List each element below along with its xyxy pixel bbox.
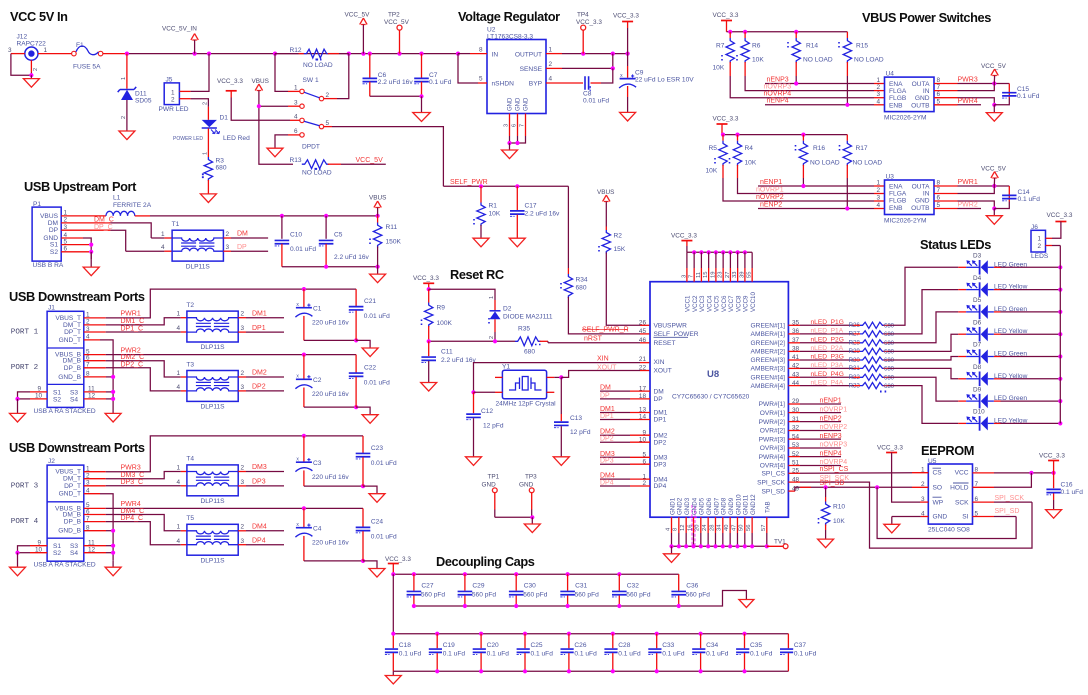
svg-text:26: 26	[639, 320, 647, 327]
ground A	[362, 348, 378, 357]
svg-text:nENP2: nENP2	[820, 415, 842, 422]
svg-text:560 pFd: 560 pFd	[421, 591, 446, 598]
svg-text:GND6: GND6	[706, 497, 713, 515]
svg-text:IN: IN	[492, 52, 499, 59]
svg-text:C16: C16	[1061, 482, 1073, 489]
svg-text:0.1 uFd: 0.1 uFd	[1061, 489, 1084, 496]
wire VCC to WP pin3	[892, 453, 920, 503]
wire R3 to ground	[207, 180, 209, 194]
svg-text:DP2: DP2	[654, 439, 667, 446]
svg-text:MIC2026-2YM: MIC2026-2YM	[884, 217, 927, 224]
svg-text:GND: GND	[915, 95, 930, 102]
svg-text:R15: R15	[856, 42, 868, 49]
svg-text:DP: DP	[654, 396, 664, 403]
svg-text:R11: R11	[386, 224, 398, 231]
junction U2 IN	[456, 52, 460, 56]
wire F1 to main 5V bus	[103, 53, 127, 55]
svg-text:DP_T: DP_T	[64, 329, 81, 336]
wire pullup bus	[722, 134, 847, 136]
svg-text:2: 2	[549, 61, 553, 68]
svg-text:J5: J5	[166, 77, 173, 84]
svg-text:DM1: DM1	[654, 410, 668, 417]
svg-text:VCC8: VCC8	[735, 295, 742, 312]
svg-text:S3: S3	[70, 389, 78, 396]
svg-text:DM: DM	[600, 385, 611, 392]
svg-text:DIODE MA2J111: DIODE MA2J111	[503, 314, 553, 321]
svg-text:4: 4	[294, 114, 298, 121]
svg-text:DP1: DP1	[252, 325, 266, 332]
svg-text:2.2 uFd 16v: 2.2 uFd 16v	[441, 357, 477, 364]
wire rail to ground decoupling	[392, 671, 394, 675]
svg-text:1: 1	[44, 47, 48, 54]
svg-text:nSPI_CS: nSPI_CS	[820, 466, 849, 473]
pin VCC1	[686, 252, 688, 268]
ground B	[369, 569, 385, 578]
ground under R1	[473, 238, 489, 247]
svg-text:R1: R1	[489, 203, 498, 210]
wire D6 to LED rail	[1001, 333, 1061, 335]
svg-text:Decoupling Caps: Decoupling Caps	[436, 554, 535, 569]
svg-text:VBUS: VBUS	[252, 78, 269, 85]
svg-text:C34: C34	[706, 642, 718, 649]
svg-text:USB Downstream Ports: USB Downstream Ports	[9, 289, 145, 304]
crystal stub upper-left	[495, 376, 502, 378]
svg-text:680: 680	[884, 324, 895, 330]
resistor R17 NO LOAD	[846, 135, 848, 141]
svg-text:USB Downstream Ports: USB Downstream Ports	[9, 440, 145, 455]
svg-text:SD05: SD05	[135, 97, 152, 104]
wire U2 IN pin8	[470, 53, 487, 55]
LED D9 LED Green	[958, 400, 966, 402]
wire R12 left column to SW1 pin1	[275, 54, 288, 92]
wire J12 pin3 to ground loop	[11, 53, 25, 55]
wire SW1 pin2 riser	[324, 98, 337, 100]
wire nENP1 net	[802, 165, 804, 178]
svg-text:VCC_5V: VCC_5V	[356, 157, 384, 164]
svg-text:1: 1	[877, 180, 881, 187]
svg-text:DM1: DM1	[600, 406, 615, 413]
ground under U8	[664, 554, 680, 563]
svg-text:J12: J12	[17, 33, 28, 40]
svg-text:nENP3: nENP3	[767, 76, 789, 83]
capacitor C16 0.1uFd	[1053, 473, 1055, 488]
wire rail B to ground	[356, 407, 370, 415]
junction SENSE riser	[611, 52, 615, 56]
svg-text:GND_B: GND_B	[58, 528, 81, 535]
TVS diode D11 SD05	[126, 54, 128, 89]
wire U8 LED pin to R29	[788, 350, 800, 352]
junction SW1 pin3 stub	[257, 104, 261, 108]
svg-text:GREEN#[3]: GREEN#[3]	[751, 357, 786, 364]
svg-text:22: 22	[639, 365, 647, 372]
svg-text:C30: C30	[524, 582, 536, 589]
svg-text:VCC_3.3: VCC_3.3	[713, 12, 739, 19]
svg-text:680: 680	[524, 349, 535, 356]
svg-text:OUTB: OUTB	[911, 102, 930, 109]
svg-text:C17: C17	[525, 203, 537, 210]
wire rail A to ground	[356, 340, 370, 348]
junction S1	[89, 243, 93, 247]
junction C7 rail	[419, 94, 423, 98]
svg-text:3: 3	[241, 538, 245, 545]
svg-text:0.1 uFd: 0.1 uFd	[531, 650, 554, 657]
pin VCC4	[707, 250, 711, 254]
svg-text:VCC 5V In: VCC 5V In	[10, 9, 68, 24]
wire R34 to U8 SELF_POWER pin45	[568, 297, 640, 334]
svg-text:PWR3: PWR3	[958, 77, 978, 84]
svg-text:560 pFd: 560 pFd	[523, 591, 548, 598]
junction C7	[419, 52, 423, 56]
svg-text:SPI_CS: SPI_CS	[762, 471, 786, 478]
svg-text:C21: C21	[364, 298, 376, 305]
svg-text:VCC5: VCC5	[714, 295, 721, 312]
svg-text:nLED_P1A: nLED_P1A	[811, 328, 844, 335]
hub controller U8 CY7C65630	[650, 282, 788, 518]
wire to P1 ground	[90, 252, 92, 267]
svg-text:J2: J2	[48, 458, 55, 465]
resistor R4 10K	[737, 135, 739, 141]
wire bulk A bottom rail	[304, 339, 356, 341]
svg-text:nRST: nRST	[584, 336, 603, 343]
svg-text:C36: C36	[686, 582, 698, 589]
svg-text:10K: 10K	[706, 167, 718, 174]
svg-text:NO LOAD: NO LOAD	[853, 159, 883, 166]
wire VBUS to R2	[605, 202, 607, 227]
svg-text:DM: DM	[654, 388, 664, 395]
wire nENP3 net	[795, 62, 797, 76]
svg-text:C27: C27	[421, 582, 433, 589]
svg-text:T2: T2	[186, 302, 194, 309]
junction XOUT crystal	[559, 375, 563, 379]
svg-text:1: 1	[161, 231, 165, 238]
svg-text:SPI_SCK: SPI_SCK	[757, 479, 785, 486]
svg-text:SI: SI	[962, 514, 968, 521]
ground under U2	[502, 150, 518, 159]
svg-text:0.01 uFd: 0.01 uFd	[583, 98, 609, 105]
svg-text:4: 4	[549, 76, 553, 83]
svg-text:PWR3: PWR3	[121, 465, 141, 472]
svg-text:45: 45	[639, 328, 647, 335]
svg-text:XOUT: XOUT	[654, 368, 672, 375]
svg-text:AMBER#[1]: AMBER#[1]	[751, 331, 786, 338]
junction pullup	[743, 30, 747, 34]
wire VCC_3.3 to SW1 pin4	[231, 98, 290, 121]
svg-text:SPI_SD: SPI_SD	[762, 488, 786, 495]
svg-text:T5: T5	[186, 515, 194, 522]
junction C5	[324, 214, 328, 218]
svg-text:0.1 uFd: 0.1 uFd	[429, 79, 452, 86]
svg-text:R5: R5	[709, 145, 718, 152]
svg-text:C1: C1	[313, 306, 322, 313]
svg-text:DM_B: DM_B	[63, 358, 82, 365]
svg-text:DP_B: DP_B	[64, 519, 82, 526]
capacitor ceramic B 0.01uFd	[355, 355, 357, 373]
ground under P1	[83, 267, 99, 276]
svg-text:SPI_SCK: SPI_SCK	[995, 495, 1025, 502]
svg-text:USB B RA: USB B RA	[33, 262, 64, 269]
svg-text:C8: C8	[583, 90, 592, 97]
capacitor bulk A 220uFd	[303, 289, 305, 308]
svg-text:0.01 uFd: 0.01 uFd	[364, 379, 390, 386]
svg-text:C3: C3	[313, 460, 322, 467]
svg-text:12: 12	[680, 525, 686, 531]
svg-text:C18: C18	[399, 642, 411, 649]
wire T3 pin3 DP2	[238, 390, 246, 392]
svg-text:GND4: GND4	[691, 497, 698, 515]
svg-text:0.1 uFd: 0.1 uFd	[706, 650, 729, 657]
junction C_a top	[302, 287, 306, 291]
capacitor C20 0.1uFd	[479, 632, 483, 636]
svg-text:VCC2: VCC2	[692, 295, 699, 312]
svg-text:DM2: DM2	[600, 429, 615, 436]
ground right	[105, 567, 121, 576]
wire U4 GND	[934, 97, 958, 99]
svg-text:PWR1: PWR1	[121, 311, 141, 318]
wire U2 BYP with C8	[546, 82, 583, 84]
wire U8 LED pin to R31	[788, 367, 800, 369]
svg-text:PWR4: PWR4	[958, 98, 978, 105]
capacitor C25 0.1uFd	[523, 632, 527, 636]
wire HOLD pin7 riser	[973, 486, 995, 488]
svg-text:IN: IN	[923, 191, 930, 198]
svg-text:220 uFd 16v: 220 uFd 16v	[312, 391, 349, 398]
svg-text:C2: C2	[313, 377, 322, 384]
svg-text:C31: C31	[575, 582, 587, 589]
svg-text:VCC_3.3: VCC_3.3	[413, 275, 439, 282]
svg-text:DLP11S: DLP11S	[201, 404, 226, 411]
svg-text:R2: R2	[614, 233, 623, 240]
capacitor C36 560pFd	[678, 574, 680, 591]
svg-text:GND: GND	[933, 514, 948, 521]
svg-text:U8: U8	[707, 369, 719, 380]
capacitor C14 0.1uFd	[994, 202, 1009, 209]
wire U5 GND pin4 to ground	[921, 516, 929, 518]
wire T1 pin3 DP	[223, 250, 231, 252]
svg-text:SPI_SD: SPI_SD	[820, 480, 845, 487]
capacitor C19 0.1uFd	[435, 632, 439, 636]
svg-text:D9: D9	[973, 386, 982, 393]
svg-text:D5: D5	[973, 297, 982, 304]
pin VCC2	[692, 250, 696, 254]
wire rail to ground	[421, 96, 423, 112]
ground left	[10, 567, 26, 576]
svg-text:3: 3	[241, 325, 245, 332]
wire U8 DP3 stub	[630, 463, 650, 465]
svg-text:50: 50	[739, 525, 745, 531]
svg-text:S4: S4	[70, 550, 78, 557]
svg-text:OUTA: OUTA	[912, 184, 930, 191]
junction VCC_5V arrow	[361, 52, 365, 56]
svg-text:nOVRP3: nOVRP3	[820, 442, 848, 449]
svg-text:680: 680	[884, 367, 895, 373]
svg-text:PORT 2: PORT 2	[11, 364, 39, 372]
junction U2 gnd 2	[515, 141, 519, 145]
junction C16	[1052, 471, 1056, 475]
svg-text:VBUSPWR: VBUSPWR	[654, 323, 688, 330]
svg-text:GND: GND	[516, 97, 522, 111]
svg-text:DLP11S: DLP11S	[201, 557, 226, 564]
junction R9 C11	[427, 339, 431, 343]
wire T5 pin2 DM4	[238, 530, 246, 532]
wire DP4_C	[84, 521, 106, 523]
pin VCC5	[714, 250, 718, 254]
svg-text:1: 1	[177, 524, 181, 531]
ground under U3	[986, 216, 1002, 225]
capacitor C12 12pFd	[473, 392, 475, 413]
svg-text:2: 2	[489, 336, 495, 339]
svg-text:220 uFd 16v: 220 uFd 16v	[312, 474, 349, 481]
junction SW1 pin2 riser	[347, 52, 351, 56]
svg-text:C11: C11	[441, 349, 453, 356]
svg-text:nOVRP4: nOVRP4	[764, 91, 792, 98]
svg-text:OVR#[3]: OVR#[3]	[760, 445, 785, 452]
svg-text:FLGA: FLGA	[889, 88, 907, 95]
svg-text:SCK: SCK	[955, 499, 969, 506]
wire R32 to LED D9	[888, 377, 958, 401]
svg-text:220 uFd 16v: 220 uFd 16v	[312, 320, 349, 327]
svg-text:2: 2	[171, 97, 175, 104]
resistor R11 150K	[377, 216, 379, 223]
ground under C17	[509, 238, 525, 247]
svg-text:12 pFd: 12 pFd	[483, 423, 504, 430]
svg-text:T4: T4	[186, 456, 194, 463]
svg-text:VCC_5V: VCC_5V	[981, 166, 1007, 173]
wire PWR3 riser and rail	[84, 471, 106, 473]
wire nSPI_CS from U8 to U5	[788, 472, 800, 474]
wire nOVRP4 net	[729, 62, 731, 76]
svg-text:R10: R10	[833, 504, 845, 511]
connector J5 PWR LED	[164, 83, 179, 105]
ground under C13	[553, 457, 569, 466]
svg-text:C10: C10	[290, 232, 302, 239]
wire pullup bus	[727, 31, 848, 33]
svg-text:DM_B: DM_B	[63, 512, 82, 519]
LED D8 LED Yellow	[958, 378, 966, 380]
wire D3 to LED rail	[1001, 266, 1061, 268]
svg-text:GREEN#[1]: GREEN#[1]	[751, 323, 786, 330]
wire D8 to LED rail	[1001, 378, 1061, 380]
svg-text:24MHz 12pF Crystal: 24MHz 12pF Crystal	[496, 401, 557, 408]
svg-text:0.1 uFd: 0.1 uFd	[574, 650, 597, 657]
svg-text:C15: C15	[1017, 86, 1029, 93]
ground decoupling bottom row	[385, 676, 401, 684]
ground under C12	[466, 457, 482, 466]
svg-text:DP: DP	[600, 392, 610, 399]
svg-text:56: 56	[746, 525, 752, 531]
wire SW1 pin5 SELF_PWR	[324, 126, 332, 128]
bottom pins of U8 GND1-GND12 TAB	[671, 517, 673, 533]
svg-text:1: 1	[171, 89, 175, 96]
svg-text:CS: CS	[933, 470, 943, 477]
svg-text:S1: S1	[53, 543, 61, 550]
capacitor C37 0.1uFd	[787, 634, 789, 649]
svg-text:Y1: Y1	[502, 363, 510, 370]
svg-text:2.2 uFd 16v: 2.2 uFd 16v	[378, 79, 414, 86]
svg-text:DP4: DP4	[654, 483, 667, 490]
svg-text:57: 57	[761, 525, 767, 531]
svg-text:ENA: ENA	[889, 184, 903, 191]
svg-text:PWR#[4]: PWR#[4]	[759, 454, 786, 461]
wire P1 VBUS to L1	[61, 215, 106, 217]
svg-text:GND12: GND12	[750, 494, 757, 515]
svg-text:2: 2	[121, 116, 127, 119]
wire R31 to LED D8	[888, 368, 958, 378]
junction R14 nENP3	[794, 81, 798, 85]
svg-text:BYP: BYP	[529, 81, 543, 88]
svg-text:IN: IN	[923, 88, 930, 95]
svg-text:GND5: GND5	[699, 497, 706, 515]
svg-text:2: 2	[241, 370, 245, 377]
capacitor bulk B 220uFd	[303, 355, 305, 380]
svg-text:3: 3	[241, 479, 245, 486]
svg-text:VBUS: VBUS	[40, 213, 59, 220]
capacitor C15 0.1uFd	[994, 98, 1009, 105]
svg-text:0.1 uFd: 0.1 uFd	[1017, 93, 1040, 100]
svg-text:D3: D3	[973, 253, 982, 260]
svg-text:2: 2	[226, 231, 230, 238]
svg-text:nLED_P3A: nLED_P3A	[811, 362, 844, 369]
svg-text:3: 3	[241, 384, 245, 391]
svg-text:R9: R9	[437, 305, 446, 312]
wire U8 DP4 stub	[630, 485, 650, 487]
wire nRST node rail	[429, 340, 515, 342]
wire SW1 pin6 to ground	[288, 134, 300, 136]
wire SPI_SCK from U8	[788, 481, 800, 483]
svg-text:0.01 uFd: 0.01 uFd	[371, 460, 397, 467]
svg-text:LEDS: LEDS	[1031, 253, 1049, 260]
svg-text:ENB: ENB	[889, 205, 903, 212]
ground decoupling top row	[739, 600, 754, 608]
svg-text:10K: 10K	[752, 57, 764, 64]
svg-text:HOLD: HOLD	[950, 485, 969, 492]
pin VCC6	[721, 250, 725, 254]
junction C_a top	[302, 434, 306, 438]
capacitor C31 560pFd	[566, 572, 570, 576]
svg-text:2: 2	[33, 68, 39, 71]
svg-text:SW 1: SW 1	[303, 77, 319, 84]
wire J6 pin1 to VCC	[1046, 237, 1053, 239]
svg-text:10K: 10K	[489, 211, 501, 218]
svg-text:34: 34	[717, 524, 723, 531]
svg-text:3: 3	[681, 275, 687, 278]
wire U8 nENP3 stub	[788, 438, 800, 440]
resistor R5 10K	[722, 135, 724, 141]
svg-text:SO: SO	[933, 485, 943, 492]
svg-text:7: 7	[689, 275, 695, 278]
svg-text:VCC_3.3: VCC_3.3	[385, 556, 411, 563]
svg-text:VCC4: VCC4	[706, 295, 713, 312]
wire U8 nOVRP1 stub	[788, 412, 800, 414]
wire J6 pin2 to LED rail	[1046, 245, 1053, 247]
wire bulk B bottom rail	[304, 406, 356, 408]
wire PWR2 rail	[84, 354, 106, 356]
LED D5 LED Green	[958, 311, 966, 313]
svg-text:DM: DM	[237, 231, 248, 238]
junction D2 nRST	[493, 339, 497, 343]
svg-text:R17: R17	[856, 145, 868, 152]
resistor R7 10K	[729, 32, 731, 38]
wire R2 to U8 VBUSPWR pin26	[606, 253, 640, 326]
wire C6 C7 ground rail	[370, 95, 422, 97]
svg-text:11: 11	[696, 272, 702, 278]
wire DP1_C	[84, 331, 106, 333]
wire R28 to LED D5	[888, 312, 958, 343]
diode D2 MA2J111	[494, 300, 496, 311]
ground under C9	[620, 112, 636, 121]
svg-text:27: 27	[725, 272, 731, 278]
svg-text:680: 680	[884, 350, 895, 356]
svg-text:NO LOAD: NO LOAD	[803, 57, 833, 64]
